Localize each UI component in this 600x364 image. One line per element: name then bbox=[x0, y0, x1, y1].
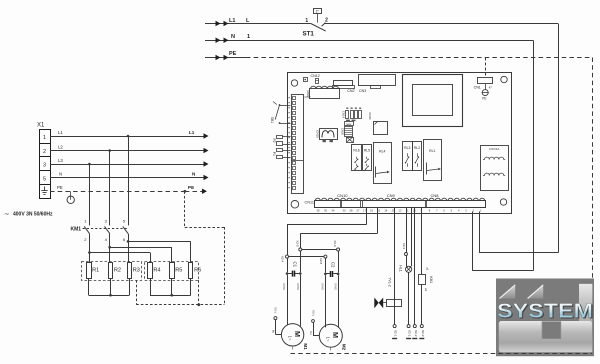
svg-text:C2: C2 bbox=[331, 262, 336, 268]
svg-text:R3: R3 bbox=[133, 268, 140, 274]
svg-text:CN11: CN11 bbox=[305, 201, 314, 205]
svg-text:X2-1: X2-1 bbox=[394, 330, 398, 337]
svg-text:L1: L1 bbox=[58, 130, 63, 135]
svg-text:HL1: HL1 bbox=[399, 265, 403, 272]
svg-text:GNYE: GNYE bbox=[321, 283, 324, 290]
svg-text:KM1: KM1 bbox=[71, 227, 82, 233]
svg-text:ST1: ST1 bbox=[303, 31, 315, 38]
svg-text:bu: bu bbox=[309, 331, 313, 335]
svg-text:X2-4: X2-4 bbox=[280, 256, 284, 263]
svg-text:L1: L1 bbox=[189, 130, 195, 135]
svg-text:CN1: CN1 bbox=[474, 86, 481, 90]
svg-text:C1: C1 bbox=[292, 261, 297, 267]
svg-text:CN7: CN7 bbox=[305, 95, 311, 99]
svg-text:P1: P1 bbox=[272, 152, 276, 156]
svg-text:1: 1 bbox=[43, 135, 46, 141]
svg-text:3: 3 bbox=[43, 163, 46, 169]
svg-text:CN10: CN10 bbox=[337, 193, 348, 198]
svg-text:PE: PE bbox=[229, 51, 237, 57]
svg-text:CN9: CN9 bbox=[387, 193, 396, 198]
svg-text:CN12: CN12 bbox=[311, 74, 320, 78]
svg-text:L2: L2 bbox=[58, 144, 63, 149]
svg-text:2: 2 bbox=[43, 149, 46, 155]
svg-text:R5: R5 bbox=[175, 268, 182, 274]
svg-text:M2: M2 bbox=[342, 344, 347, 351]
svg-text:X2-3: X2-3 bbox=[402, 243, 406, 250]
svg-text:SB1: SB1 bbox=[270, 117, 274, 123]
svg-text:X1: X1 bbox=[37, 123, 45, 129]
svg-text:YV1-2: YV1-2 bbox=[388, 277, 392, 287]
svg-text:R1: R1 bbox=[92, 268, 99, 274]
svg-text:2: 2 bbox=[325, 17, 328, 23]
svg-text:CN16: CN16 bbox=[368, 112, 372, 120]
svg-text:1~: 1~ bbox=[287, 336, 292, 341]
svg-text:N: N bbox=[231, 34, 235, 40]
svg-text:RL3: RL3 bbox=[404, 146, 410, 150]
svg-text:GNYE: GNYE bbox=[296, 283, 299, 290]
svg-text:1~: 1~ bbox=[326, 337, 331, 342]
svg-text:GNYE: GNYE bbox=[282, 283, 285, 290]
svg-text:RL4: RL4 bbox=[379, 149, 385, 153]
svg-text:RL6: RL6 bbox=[353, 148, 359, 152]
svg-text:1: 1 bbox=[305, 18, 308, 24]
svg-text:L3: L3 bbox=[58, 158, 63, 163]
svg-text:KM1: KM1 bbox=[429, 276, 433, 283]
svg-text:X2-1: X2-1 bbox=[408, 330, 412, 337]
svg-text:RL1: RL1 bbox=[429, 149, 435, 153]
svg-text:CN3: CN3 bbox=[359, 89, 366, 93]
svg-text:X2-2: X2-2 bbox=[414, 330, 418, 337]
svg-text:R4: R4 bbox=[153, 268, 160, 274]
svg-text:CN20: CN20 bbox=[341, 128, 345, 136]
svg-text:X2-8: X2-8 bbox=[319, 258, 323, 265]
svg-text:MMF: MMF bbox=[346, 124, 352, 126]
svg-text:X3-1: X3-1 bbox=[274, 307, 278, 313]
svg-text:M: M bbox=[331, 332, 340, 338]
svg-text:N: N bbox=[59, 171, 62, 176]
svg-text:SYSTEM: SYSTEM bbox=[497, 299, 593, 322]
svg-text:bu: bu bbox=[272, 330, 276, 334]
svg-text:PE: PE bbox=[188, 185, 194, 190]
svg-text:R6: R6 bbox=[194, 268, 201, 274]
svg-text:X2-2: X2-2 bbox=[421, 330, 425, 337]
svg-text:M1: M1 bbox=[303, 343, 308, 350]
svg-text:3.6V/1A: 3.6V/1A bbox=[489, 147, 499, 151]
svg-text:a1: a1 bbox=[426, 267, 430, 271]
svg-text:a2: a2 bbox=[424, 288, 428, 292]
svg-text:1: 1 bbox=[247, 34, 250, 40]
svg-text:∼: ∼ bbox=[4, 211, 10, 218]
svg-text:X2-6: X2-6 bbox=[333, 240, 337, 247]
svg-text:CN14: CN14 bbox=[341, 111, 345, 119]
svg-text:GNYE: GNYE bbox=[333, 283, 336, 290]
svg-text:R2: R2 bbox=[114, 268, 121, 274]
svg-text:CN8: CN8 bbox=[431, 193, 440, 198]
svg-text:X2-5: X2-5 bbox=[295, 240, 299, 247]
svg-text:X3-1: X3-1 bbox=[311, 310, 315, 316]
svg-text:CN15: CN15 bbox=[315, 130, 319, 138]
svg-text:CN2: CN2 bbox=[347, 89, 354, 93]
svg-text:M: M bbox=[293, 331, 302, 337]
svg-text:P2: P2 bbox=[272, 138, 276, 142]
svg-text:PE: PE bbox=[482, 97, 486, 101]
svg-text:400V 3N 50/60Hz: 400V 3N 50/60Hz bbox=[13, 212, 53, 218]
svg-text:RL5: RL5 bbox=[364, 148, 370, 152]
svg-text:PE: PE bbox=[57, 185, 63, 190]
svg-text:5: 5 bbox=[43, 176, 46, 182]
svg-text:L1: L1 bbox=[229, 18, 235, 24]
svg-text:RL2: RL2 bbox=[414, 146, 420, 150]
